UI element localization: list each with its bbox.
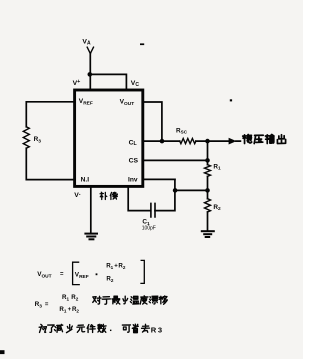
svg-text:VC: VC — [131, 80, 140, 88]
svg-text:VOUT: VOUT — [120, 98, 135, 106]
svg-text:RSC: RSC — [176, 127, 188, 134]
svg-text:R3: R3 — [151, 325, 162, 334]
svg-text:R3: R3 — [34, 136, 42, 144]
svg-text:V+: V+ — [73, 79, 81, 87]
svg-text:V-: V- — [74, 192, 81, 200]
svg-text:N.I: N.I — [81, 176, 90, 183]
svg-text:VREF: VREF — [79, 98, 93, 106]
svg-text:R2: R2 — [213, 204, 221, 212]
svg-text:CS: CS — [129, 158, 139, 165]
svg-text:R1: R1 — [213, 163, 221, 171]
svg-text:VOUT: VOUT — [37, 271, 51, 280]
svg-text:=: = — [60, 271, 64, 277]
svg-text:R1R2: R1R2 — [62, 294, 79, 302]
svg-text:CL: CL — [129, 139, 138, 147]
svg-text:R1+R2: R1+R2 — [59, 306, 79, 314]
svg-text:100pF: 100pF — [142, 226, 156, 232]
svg-text:Inv: Inv — [128, 176, 138, 183]
svg-text:VREF: VREF — [75, 271, 89, 279]
svg-text:R1+R2: R1+R2 — [106, 263, 126, 271]
svg-text:R2: R2 — [106, 276, 113, 284]
svg-text:VA: VA — [82, 39, 91, 47]
svg-text:R3=: R3= — [35, 301, 49, 310]
